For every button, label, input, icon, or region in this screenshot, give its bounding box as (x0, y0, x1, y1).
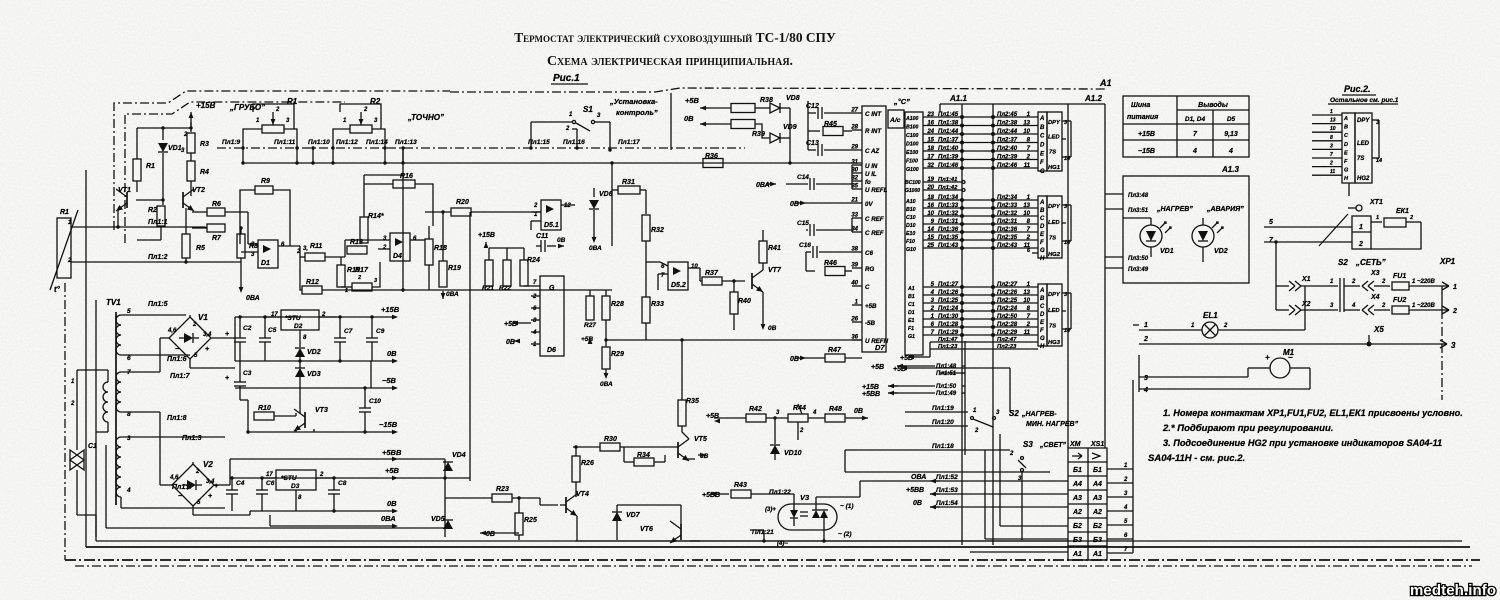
svg-text:17: 17 (266, 472, 273, 478)
svg-text:VD1: VD1 (168, 145, 182, 152)
svg-text:Пл1:54: Пл1:54 (936, 500, 958, 507)
svg-text:R32: R32 (651, 227, 664, 234)
svg-text:VT3: VT3 (315, 407, 328, 414)
svg-text:~ (2): ~ (2) (838, 531, 852, 538)
svg-text:4: 4 (1228, 148, 1233, 155)
svg-text:E10: E10 (906, 231, 915, 237)
svg-text:2: 2 (1452, 308, 1457, 315)
svg-text:R2: R2 (148, 207, 157, 214)
svg-text:С15: С15 (797, 220, 809, 227)
svg-text:Х3: Х3 (1370, 270, 1380, 277)
svg-text:Пл2:29: Пл2:29 (997, 330, 1018, 336)
svg-text:Термостат электрический сухово: Термостат электрический суховоздушный ТС… (514, 30, 836, 45)
svg-text:4: 4 (1143, 387, 1148, 394)
svg-text:D4: D4 (393, 253, 402, 260)
svg-text:+5В: +5В (871, 364, 884, 371)
svg-text:2: 2 (1351, 279, 1356, 285)
svg-text:+15В: +15В (1138, 131, 1155, 138)
svg-text:3,: 3, (303, 246, 308, 252)
svg-text:VD8: VD8 (786, 95, 800, 102)
svg-text:Пл1:52: Пл1:52 (936, 474, 958, 481)
svg-text:0В: 0В (486, 531, 495, 538)
svg-text:Рис.2.: Рис.2. (1344, 84, 1371, 94)
svg-text:А4: А4 (1092, 481, 1102, 488)
svg-text:25: 25 (926, 243, 934, 249)
svg-text:15: 15 (927, 138, 934, 144)
svg-text:Пл1:18: Пл1:18 (932, 443, 954, 450)
svg-text:5: 5 (127, 308, 131, 315)
svg-text:0V: 0V (865, 201, 873, 208)
svg-text:+5В: +5В (385, 466, 400, 475)
svg-text:R25: R25 (524, 517, 537, 524)
svg-text:VT7: VT7 (768, 267, 782, 274)
svg-text:Б2: Б2 (1073, 523, 1082, 530)
svg-text:*STU: *STU (285, 315, 301, 322)
svg-text:R45: R45 (824, 121, 837, 128)
svg-text:Пл1:47: Пл1:47 (938, 337, 958, 343)
svg-text:EL1: EL1 (1203, 311, 1218, 320)
svg-text:D: D (1040, 143, 1045, 149)
svg-text:D5: D5 (1227, 116, 1236, 123)
svg-text:R34: R34 (637, 452, 650, 459)
svg-text:11: 11 (1024, 163, 1031, 169)
svg-text:VT1: VT1 (118, 187, 131, 194)
svg-text:Пл1:46: Пл1:46 (938, 163, 959, 169)
svg-text:С11: С11 (536, 233, 548, 240)
svg-text:С16: С16 (799, 242, 811, 249)
svg-text:RG: RG (865, 266, 874, 273)
svg-text:−: − (1288, 353, 1293, 362)
svg-text:2: 2 (1381, 279, 1386, 285)
svg-text:R33: R33 (651, 301, 664, 308)
svg-text:2: 2 (250, 242, 255, 248)
svg-text:МИН. НАГРЕВ”: МИН. НАГРЕВ” (1026, 421, 1079, 428)
svg-text:Пл1:9: Пл1:9 (222, 139, 240, 146)
svg-text:7S: 7S (1049, 149, 1056, 155)
svg-text:7: 7 (1330, 152, 1333, 158)
svg-text:2: 2 (363, 107, 368, 113)
svg-text:R31: R31 (622, 179, 635, 186)
svg-text:R4: R4 (200, 169, 209, 176)
svg-text:medteh.info: medteh.info (1410, 582, 1496, 599)
svg-text:R22: R22 (499, 285, 511, 292)
svg-text:А1: А1 (1072, 551, 1082, 558)
svg-text:+: + (225, 375, 229, 382)
svg-text:+5В: +5В (706, 413, 719, 420)
svg-text:10: 10 (691, 264, 698, 270)
svg-text:Пл1:26: Пл1:26 (938, 290, 959, 296)
svg-text:R26: R26 (581, 460, 594, 467)
svg-text:Остальное см. рис.1: Остальное см. рис.1 (1330, 97, 1399, 104)
svg-text:Пл1:2: Пл1:2 (148, 254, 168, 261)
svg-text:2: 2 (1026, 155, 1031, 161)
svg-text:R9: R9 (261, 178, 270, 185)
svg-text:XS1: XS1 (1090, 441, 1104, 448)
svg-text:D3: D3 (291, 483, 300, 490)
svg-text:HG1: HG1 (1048, 165, 1060, 171)
svg-text:Пл1:24: Пл1:24 (938, 306, 959, 312)
svg-text:Пл2:31: Пл2:31 (997, 219, 1018, 225)
svg-text:G: G (1344, 168, 1349, 174)
svg-text:Пл1:44: Пл1:44 (938, 129, 959, 135)
svg-text:A10: A10 (905, 199, 916, 205)
svg-text:4: 4 (812, 410, 817, 416)
svg-text:R23: R23 (496, 486, 509, 493)
svg-text:ХТ1: ХТ1 (1369, 199, 1383, 206)
svg-text:15: 15 (927, 235, 934, 241)
svg-text:D1: D1 (908, 310, 915, 316)
svg-text:VD6: VD6 (599, 191, 613, 198)
svg-text:С9: С9 (376, 328, 385, 335)
svg-text:Пл1:31: Пл1:31 (938, 219, 959, 225)
svg-text:Пл1:5: Пл1:5 (148, 301, 168, 308)
svg-text:HG2: HG2 (1048, 252, 1061, 258)
svg-text:Б1: Б1 (1073, 467, 1082, 474)
svg-text:17: 17 (927, 155, 934, 161)
svg-text:С14: С14 (797, 174, 809, 181)
svg-text:VD3: VD3 (307, 371, 321, 378)
svg-text:R INT: R INT (865, 128, 882, 135)
svg-text:+5В: +5В (685, 96, 700, 105)
svg-text:Выводы: Выводы (1198, 101, 1228, 109)
svg-text:Пл2:44: Пл2:44 (997, 129, 1018, 135)
svg-text:Пл1:32: Пл1:32 (938, 211, 959, 217)
svg-text:+: + (1265, 353, 1270, 362)
svg-text:Пл1:36: Пл1:36 (938, 227, 959, 233)
svg-text:Пл1:17: Пл1:17 (618, 139, 640, 146)
svg-text:D1: D1 (261, 260, 270, 267)
svg-text:FU2: FU2 (1393, 297, 1406, 304)
svg-text:4,6: 4,6 (169, 475, 179, 481)
svg-text:A: A (1039, 200, 1044, 206)
svg-text:VT2: VT2 (192, 187, 205, 194)
svg-text:Пл2:24: Пл2:24 (997, 306, 1018, 312)
svg-text:0В: 0В (684, 114, 694, 123)
svg-text:Пл1:45: Пл1:45 (938, 112, 959, 118)
svg-text:Пл1:25: Пл1:25 (938, 298, 959, 304)
svg-text:R18: R18 (434, 245, 447, 252)
svg-text:C REF: C REF (865, 216, 884, 223)
svg-text:D: D (1040, 312, 1045, 318)
svg-text:2: 2 (532, 294, 537, 300)
svg-text:1 ~220В: 1 ~220В (1412, 303, 1436, 309)
svg-text:+5ВВ: +5ВВ (382, 448, 402, 457)
svg-text:+: + (205, 346, 209, 353)
svg-text:B: B (1344, 125, 1348, 131)
svg-text:А3: А3 (1072, 495, 1082, 502)
svg-text:1: 1 (1359, 224, 1363, 231)
svg-text:C: C (865, 284, 870, 291)
svg-text:10: 10 (1023, 298, 1030, 304)
svg-text:R3: R3 (200, 141, 209, 148)
svg-text:B10: B10 (906, 207, 916, 213)
svg-text:−: − (175, 346, 179, 353)
svg-text:0ВА: 0ВА (600, 381, 613, 388)
svg-text:ХМ: ХМ (1069, 441, 1081, 448)
svg-text:Х2: Х2 (1301, 301, 1311, 308)
svg-text:DPY: DPY (1048, 204, 1061, 210)
svg-text:13: 13 (1023, 290, 1030, 296)
svg-text:+15В: +15В (862, 384, 879, 391)
svg-text:0ВА: 0ВА (756, 182, 770, 189)
svg-text:7S: 7S (1049, 323, 1056, 329)
svg-text:0В: 0В (790, 201, 799, 208)
svg-text:R5: R5 (196, 245, 205, 252)
svg-text:5: 5 (1269, 219, 1273, 226)
svg-text:1. Номера контактам ХР1,FU1,FU: 1. Номера контактам ХР1,FU1,FU2, EL1,ЕК1… (1163, 408, 1463, 418)
svg-text:13: 13 (1330, 118, 1336, 124)
svg-text:20: 20 (926, 185, 934, 191)
svg-text:Пл1:23: Пл1:23 (938, 344, 958, 350)
svg-text:G1: G1 (908, 334, 915, 340)
svg-text:Пл1:3: Пл1:3 (182, 435, 202, 442)
svg-text:0В: 0В (387, 349, 397, 358)
svg-text:R30: R30 (604, 436, 617, 443)
svg-text:R6: R6 (212, 201, 221, 208)
svg-text:Пл1:13: Пл1:13 (395, 139, 417, 146)
svg-text:D1, D4: D1, D4 (1185, 116, 1206, 123)
svg-text:3. Подсоединение HG2 при устан: 3. Подсоединение HG2 при установке индик… (1163, 438, 1442, 448)
svg-text:DPY: DPY (1048, 120, 1061, 126)
svg-text:1 ~220В: 1 ~220В (1412, 279, 1436, 285)
svg-text:Пл1:35: Пл1:35 (938, 235, 959, 241)
svg-text:Пл1:29: Пл1:29 (938, 330, 959, 336)
svg-text:F: F (1040, 328, 1044, 334)
svg-text:HG3: HG3 (1048, 340, 1061, 346)
svg-text:U IL: U IL (865, 171, 877, 178)
svg-text:B: B (1040, 208, 1045, 214)
svg-text:2: 2 (183, 132, 188, 138)
svg-text:2: 2 (1358, 241, 1363, 248)
svg-text:DPY: DPY (1048, 292, 1061, 298)
svg-text:А3: А3 (1092, 495, 1102, 502)
svg-text:2: 2 (1009, 451, 1014, 457)
svg-text:VD4: VD4 (452, 452, 466, 459)
svg-text:1: 1 (1376, 215, 1379, 221)
svg-text:2: 2 (1381, 303, 1386, 309)
svg-text:HG2: HG2 (1357, 176, 1370, 182)
svg-text:С8: С8 (338, 480, 347, 487)
svg-text:+5ВВ: +5ВВ (906, 487, 924, 494)
svg-text:SA04-11Н - см. рис.2.: SA04-11Н - см. рис.2. (1148, 453, 1245, 464)
svg-text:R10: R10 (258, 405, 271, 412)
svg-text:−5В: −5В (382, 376, 397, 385)
svg-text:2: 2 (357, 275, 361, 281)
svg-text:„°С”: „°С” (893, 97, 910, 106)
svg-text:18: 18 (927, 195, 934, 201)
svg-text:Пл1:37: Пл1:37 (938, 138, 959, 144)
svg-text:контроль”: контроль” (616, 108, 658, 117)
svg-text:питания: питания (1127, 114, 1158, 121)
svg-text:G: G (1040, 248, 1045, 254)
svg-text:0В: 0В (387, 499, 397, 508)
svg-text:A: A (1039, 288, 1044, 294)
svg-text:C AZ: C AZ (865, 148, 879, 155)
svg-text:2: 2 (70, 401, 75, 407)
svg-text:Пл1:27: Пл1:27 (938, 282, 959, 288)
svg-text:+5ВВ: +5ВВ (702, 492, 720, 499)
svg-text:R36: R36 (705, 153, 718, 160)
svg-text:A/c: A/c (889, 117, 901, 124)
svg-text:С5: С5 (268, 327, 277, 334)
svg-text:Пл1:49: Пл1:49 (936, 391, 957, 397)
svg-text:ЕК1: ЕК1 (1396, 208, 1409, 215)
svg-text:1: 1 (345, 288, 348, 294)
svg-text:А1: А1 (1099, 78, 1112, 88)
svg-text:С3: С3 (243, 370, 252, 377)
svg-text:F: F (1040, 240, 1044, 246)
svg-text:„НАГРЕВ”: „НАГРЕВ” (1156, 206, 1193, 213)
svg-text:Пл1:6: Пл1:6 (167, 356, 187, 363)
svg-text:Пл1:48: Пл1:48 (936, 364, 957, 370)
svg-text:„Установка-: „Установка- (609, 97, 658, 106)
svg-text:D5.1: D5.1 (544, 222, 559, 229)
svg-text:13: 13 (1023, 121, 1030, 127)
svg-text:Пл2:37: Пл2:37 (997, 138, 1018, 144)
svg-text:D6: D6 (547, 347, 556, 354)
svg-text:F1: F1 (908, 326, 914, 332)
svg-text:R19: R19 (448, 265, 461, 272)
svg-text:Пл3:51: Пл3:51 (1128, 208, 1149, 214)
svg-text:Пл1:8: Пл1:8 (167, 415, 187, 422)
svg-text:−: − (178, 493, 182, 500)
svg-text:4: 4 (126, 487, 131, 494)
svg-text:Пл2:46: Пл2:46 (997, 163, 1018, 169)
svg-text:VD2: VD2 (307, 349, 321, 356)
svg-text:1: 1 (1330, 109, 1333, 115)
svg-text:Пл1:30: Пл1:30 (938, 314, 959, 320)
svg-text:-5В: -5В (865, 320, 876, 327)
svg-text:18: 18 (927, 146, 934, 152)
svg-text:D2: D2 (294, 323, 303, 330)
svg-text:Схема электрическая принципиал: Схема электрическая принципиальная. (547, 54, 793, 69)
svg-text:0В: 0В (913, 500, 922, 507)
svg-text:fо: fо (865, 179, 871, 186)
svg-text:3: 3 (1330, 143, 1333, 149)
svg-text:1: 1 (1144, 322, 1148, 329)
svg-text:Пл3:50: Пл3:50 (1128, 256, 1149, 262)
svg-text:2: 2 (1026, 235, 1031, 241)
svg-text:8: 8 (1330, 135, 1333, 141)
svg-text:0ВА: 0ВА (381, 514, 396, 523)
svg-text:B1: B1 (908, 294, 915, 300)
svg-text:6: 6 (127, 355, 131, 362)
svg-text:R11: R11 (310, 243, 322, 250)
svg-text:Пл1:7: Пл1:7 (170, 373, 191, 380)
svg-text:LED: LED (1048, 135, 1060, 141)
svg-text:13: 13 (1023, 203, 1030, 209)
svg-text:14: 14 (927, 227, 934, 233)
svg-text:0ВА: 0ВА (246, 295, 260, 302)
svg-text:Пл1:43: Пл1:43 (938, 243, 959, 249)
svg-text:Пл3:49: Пл3:49 (1128, 267, 1149, 273)
svg-text:R47: R47 (828, 347, 842, 354)
svg-text:G: G (1040, 169, 1045, 175)
svg-text:R16: R16 (400, 173, 413, 180)
svg-text:4: 4 (1192, 148, 1197, 155)
svg-text:E100: E100 (906, 150, 918, 156)
svg-text:С6: С6 (266, 480, 275, 487)
svg-text:Пл2:33: Пл2:33 (997, 203, 1018, 209)
svg-text:2: 2 (382, 245, 387, 251)
svg-text:„АВАРИЯ”: „АВАРИЯ” (1206, 206, 1244, 213)
svg-text:23: 23 (926, 112, 934, 118)
svg-text:R42: R42 (749, 406, 762, 413)
svg-text:Пл1:50: Пл1:50 (936, 384, 957, 390)
svg-text:Пл1:22: Пл1:22 (769, 489, 791, 496)
svg-text:VT4: VT4 (576, 491, 589, 498)
svg-text:А2: А2 (1072, 509, 1082, 516)
svg-text:D7: D7 (875, 343, 885, 352)
svg-text:B: B (1040, 125, 1045, 131)
svg-text:Пл2:23: Пл2:23 (997, 344, 1017, 350)
svg-text:„НАГРЕВ-: „НАГРЕВ- (1021, 411, 1057, 418)
svg-text:0В: 0В (506, 339, 515, 346)
svg-text:24: 24 (926, 129, 934, 135)
svg-text:4: 4 (1123, 505, 1128, 511)
svg-text:11: 11 (1024, 330, 1031, 336)
svg-text:R1: R1 (60, 209, 69, 216)
svg-text:4,6: 4,6 (167, 328, 177, 334)
svg-text:A1: A1 (907, 286, 915, 292)
svg-text:G1000: G1000 (905, 188, 920, 194)
svg-text:Пл2:35: Пл2:35 (997, 235, 1018, 241)
svg-text:Пл2:45: Пл2:45 (997, 112, 1018, 118)
svg-text:0В: 0В (768, 325, 777, 332)
svg-text:Пл1:11: Пл1:11 (274, 139, 296, 146)
svg-text:3: 3 (1451, 341, 1456, 350)
svg-text:Пл2:47: Пл2:47 (997, 337, 1017, 343)
svg-text:0ВА: 0ВА (446, 291, 459, 298)
svg-text:S2: S2 (1338, 258, 1348, 267)
svg-text:„СЕТЬ”: „СЕТЬ” (1355, 258, 1386, 267)
svg-text:C1: C1 (908, 302, 915, 308)
svg-text:R20: R20 (456, 199, 469, 206)
svg-text:F: F (1040, 160, 1044, 166)
svg-text:R48: R48 (829, 406, 842, 413)
svg-text:C: C (1040, 216, 1045, 222)
svg-text:B100: B100 (906, 125, 919, 131)
svg-text:R17: R17 (355, 267, 369, 274)
svg-text:А4: А4 (1072, 481, 1082, 488)
svg-text:2: 2 (1123, 477, 1128, 483)
svg-text:C: C (1040, 134, 1045, 140)
svg-text:Пл2:36: Пл2:36 (997, 227, 1018, 233)
svg-text:S2: S2 (1009, 409, 1019, 418)
svg-text:Б2: Б2 (1093, 523, 1102, 530)
svg-text:Пл3:48: Пл3:48 (1128, 193, 1149, 199)
svg-text:0В: 0В (790, 356, 799, 363)
svg-text:R35: R35 (686, 398, 699, 405)
svg-text:Пл1:12: Пл1:12 (336, 139, 358, 146)
svg-text:R43: R43 (734, 482, 747, 489)
svg-text:Пл1:33: Пл1:33 (938, 203, 959, 209)
svg-text:C6: C6 (865, 250, 873, 257)
svg-text:S1: S1 (583, 105, 593, 114)
svg-text:Шина: Шина (1131, 102, 1150, 109)
svg-text:(3)+: (3)+ (765, 507, 776, 513)
svg-text:Пл2:40: Пл2:40 (997, 146, 1018, 152)
svg-text:12: 12 (564, 203, 571, 209)
svg-text:Пл2:50: Пл2:50 (997, 314, 1018, 320)
svg-text:Пл2:28: Пл2:28 (997, 322, 1018, 328)
svg-text:VD5: VD5 (431, 516, 445, 523)
svg-text:Пл2:34: Пл2:34 (997, 195, 1018, 201)
svg-text:FU1: FU1 (1393, 273, 1406, 280)
svg-text:Пл2:43: Пл2:43 (997, 243, 1018, 249)
svg-text:A100: A100 (905, 116, 919, 122)
svg-text:С7: С7 (344, 328, 353, 335)
